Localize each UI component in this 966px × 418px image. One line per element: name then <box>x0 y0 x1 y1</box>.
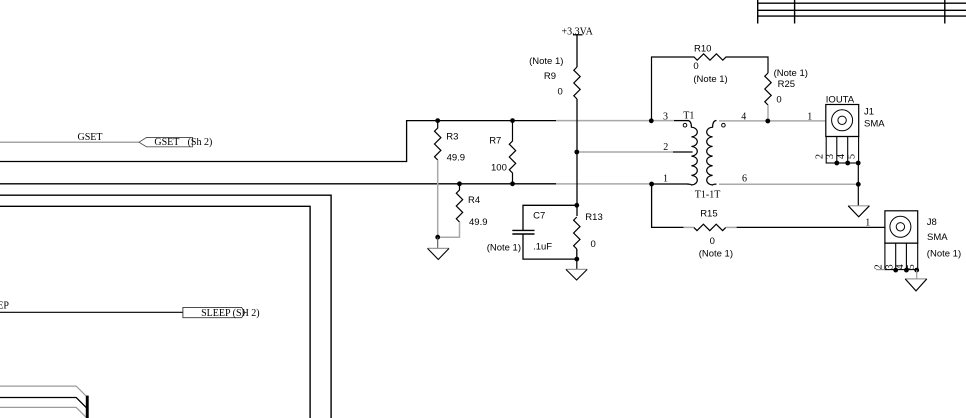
resistor R4 <box>456 184 487 228</box>
svg-text:0: 0 <box>693 61 698 72</box>
junction (R25 bottom / pin 4 rail) <box>765 119 770 124</box>
junction (J1 pin 5) <box>856 161 861 166</box>
svg-text:3: 3 <box>663 111 668 122</box>
svg-text:1: 1 <box>865 218 870 229</box>
table (revision block corner, top right) <box>758 0 966 24</box>
resistor R10 <box>652 43 769 120</box>
wire (J1 shield down) <box>857 163 859 206</box>
svg-text:4: 4 <box>836 154 847 159</box>
svg-text:T1: T1 <box>683 110 694 121</box>
wire (bus entry, gray upper) <box>0 386 86 396</box>
svg-text:0: 0 <box>710 236 715 247</box>
wire (gray segment of rail to junction) <box>556 183 652 185</box>
ground (below R13) <box>566 259 587 280</box>
svg-text:R15: R15 <box>700 208 717 219</box>
svg-text:SLEEP: SLEEP <box>0 301 9 312</box>
ground (below J8) <box>905 270 927 291</box>
junction (R10 left / pin 3 rail) <box>649 118 654 123</box>
junction (J8 pin 3) <box>893 268 898 273</box>
svg-text:SMA: SMA <box>927 232 948 243</box>
ground (below R3/R4) <box>428 237 450 259</box>
svg-text:1: 1 <box>663 174 668 185</box>
junction (R7 bottom) <box>510 181 515 186</box>
bus (thick vertical bar) <box>86 396 89 418</box>
svg-text:GSET: GSET <box>154 137 179 148</box>
svg-text:(Note 1): (Note 1) <box>699 249 733 260</box>
resistor R25 <box>765 68 808 121</box>
box (outer block outline, bottom left) <box>0 195 331 418</box>
connector J8 SMA <box>876 211 961 270</box>
junction (J8 pin 5) <box>914 268 919 273</box>
svg-text:49.9: 49.9 <box>469 217 488 228</box>
transformer T1 left winding <box>683 110 697 185</box>
wire (T1 pin 6 to J1 ground node, gray) <box>719 183 858 185</box>
wire (long rail y=183.8 black) <box>0 183 556 185</box>
junction (C7 tap) <box>574 203 579 208</box>
junction (J1 pin 3) <box>834 161 839 166</box>
svg-text:5: 5 <box>846 154 857 159</box>
wire SLEEP net (black, to port) <box>0 311 183 313</box>
svg-text:J8: J8 <box>927 217 937 228</box>
junction (R3 top) <box>435 118 440 123</box>
junction (pin 6 net at J1 ground) <box>856 182 861 187</box>
svg-text:R4: R4 <box>468 195 480 206</box>
wire (T1 pin 4 to J1, gray) <box>719 120 833 122</box>
wire (R15 to J8) <box>737 226 891 228</box>
junction (pin1 rail / R15 branch) <box>649 182 654 187</box>
svg-text:SLEEP (SH 2): SLEEP (SH 2) <box>201 308 260 319</box>
svg-text:2: 2 <box>815 154 826 159</box>
svg-text:0: 0 <box>591 239 596 250</box>
svg-text:J1: J1 <box>864 107 874 118</box>
capacitor C7 <box>487 205 577 259</box>
wire (T1 pin 2, gray) <box>577 151 673 153</box>
resistor R9 <box>529 56 580 99</box>
ground (below J1) <box>848 206 869 217</box>
transformer T1 right winding <box>695 121 725 201</box>
svg-text:(Note 1): (Note 1) <box>529 56 563 67</box>
svg-text:IOUTA: IOUTA <box>826 94 855 105</box>
junction (R4 top) <box>457 181 462 186</box>
svg-text:C7: C7 <box>533 210 545 221</box>
off-page port GSET (Sh 2) <box>139 137 212 148</box>
wire (R3 bottom lead, gray) <box>437 160 439 237</box>
wire (bus entry, gray lower) <box>0 407 86 417</box>
svg-text:100: 100 <box>491 162 507 173</box>
svg-text:T1-1T: T1-1T <box>695 190 721 201</box>
svg-text:0: 0 <box>776 94 781 105</box>
wire (pin1 rail down to R15) <box>652 184 684 227</box>
svg-text:R9: R9 <box>544 71 556 82</box>
svg-text:6: 6 <box>742 174 747 185</box>
resistor R15 <box>684 208 737 259</box>
wire GSET net (gray, to port) <box>0 141 139 143</box>
svg-text:GSET: GSET <box>78 132 103 143</box>
resistor R3 <box>435 121 466 164</box>
svg-text:49.9: 49.9 <box>447 153 466 164</box>
svg-text:2: 2 <box>663 142 668 153</box>
svg-text:(Note 1): (Note 1) <box>487 242 521 253</box>
junction (J1 pin 4) <box>845 161 850 166</box>
svg-text:R3: R3 <box>446 132 458 143</box>
svg-text:1: 1 <box>807 112 812 123</box>
wire (bus entry, black middle) <box>0 398 87 409</box>
wire (+3.3VA vertical feed) <box>576 35 578 67</box>
svg-text:R25: R25 <box>778 79 795 90</box>
svg-text:0: 0 <box>558 87 563 98</box>
resistor R7 <box>489 121 516 184</box>
wire (T1 pin 2 stub black) <box>673 151 693 153</box>
svg-text:3: 3 <box>884 264 895 269</box>
box (inner block outline, bottom left) <box>0 206 310 418</box>
svg-text:(Note 1): (Note 1) <box>774 68 808 79</box>
wire (T1 pin 1 stub) <box>652 183 689 185</box>
connector J1 SMA <box>826 94 885 163</box>
wire (gray segment of top rail to T1 pin 3) <box>556 120 674 122</box>
wire (R13 bottom) <box>576 249 578 259</box>
svg-text:R7: R7 <box>489 135 501 146</box>
svg-text:R13: R13 <box>585 212 602 223</box>
svg-text:2: 2 <box>874 264 885 269</box>
off-page port SLEEP (SH 2) <box>183 307 260 319</box>
resistor R13 <box>574 212 603 250</box>
wire (black L from left edge up to top rail) <box>0 121 556 162</box>
svg-text:(Sh 2): (Sh 2) <box>188 137 213 148</box>
wire (R9 bottom to pin2/R13 vertical) <box>576 99 578 216</box>
junction (R13/C7 bottom) <box>574 257 579 262</box>
junction (J8 pin 4) <box>904 268 909 273</box>
svg-text:.1uF: .1uF <box>533 241 552 252</box>
svg-text:(Note 1): (Note 1) <box>927 248 961 259</box>
junction (vertical at pin 2) <box>574 150 579 155</box>
wire (R4 bottom lead, gray) <box>438 222 460 237</box>
svg-text:SMA: SMA <box>864 118 885 129</box>
svg-text:3: 3 <box>825 154 836 159</box>
wire (T1 pin 3 stub) <box>674 120 689 122</box>
svg-text:R10: R10 <box>694 43 711 54</box>
power symbol +3.3VA <box>562 26 594 37</box>
junction (R7 top) <box>510 118 515 123</box>
svg-text:(Note 1): (Note 1) <box>693 74 727 85</box>
junction (R3/R4 ground node) <box>435 235 440 240</box>
